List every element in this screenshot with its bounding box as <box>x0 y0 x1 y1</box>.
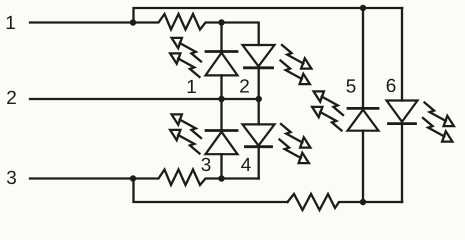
label 2 (D2) <box>240 79 249 92</box>
wire line3 to D4 <box>222 177 259 179</box>
LED D1 emission arrows <box>170 38 201 77</box>
terminal label 3 <box>7 171 16 184</box>
junction R2 / D3 cathode <box>218 175 224 181</box>
LED D6 <box>387 8 418 202</box>
label 3 (D3) <box>201 158 210 171</box>
resistor R2 <box>133 170 222 186</box>
LED D3 emission arrows <box>170 114 201 153</box>
LED D6 emission arrows <box>423 103 454 142</box>
terminal label 2 <box>7 91 16 104</box>
junction line1 / top rail <box>130 19 136 25</box>
junction line2 / D1-D3 <box>218 96 224 102</box>
LED D3 <box>206 99 238 179</box>
wire line 1 <box>30 21 133 23</box>
label 5 (D5) <box>346 79 355 92</box>
wire bottom rail right <box>363 201 402 203</box>
LED D5 <box>348 8 379 202</box>
junction R1 / D1 anode <box>218 19 224 25</box>
wire bottom rail left <box>134 179 288 203</box>
junction line2 / D2-D4 <box>256 96 262 102</box>
junction bottom rail / D5 <box>360 199 366 205</box>
wire line 3 <box>30 177 133 179</box>
LED D4 emission arrows <box>280 124 311 163</box>
label 1 (D1) <box>188 80 196 93</box>
junction top rail / D5 <box>360 5 366 11</box>
label 6 (D6) <box>387 79 396 92</box>
terminal label 1 <box>7 16 15 29</box>
LED D1 <box>206 23 238 100</box>
resistor R3 <box>288 194 364 210</box>
LED D2 emission arrows <box>281 45 312 84</box>
wire line 2 <box>30 98 259 100</box>
LED D5 emission arrows <box>312 91 343 130</box>
junction line3 / bottom rail <box>130 175 136 181</box>
LED D4 <box>243 99 275 179</box>
LED D2 <box>243 45 275 99</box>
wire top rail <box>134 8 403 23</box>
resistor R1 <box>133 14 222 30</box>
wire line1 to D2 <box>222 23 259 46</box>
label 4 (D4) <box>241 158 251 171</box>
